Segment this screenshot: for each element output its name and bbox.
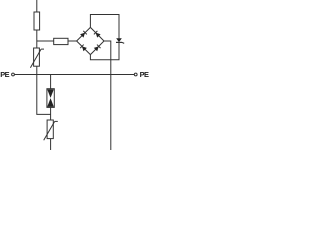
diode D1 (80, 31, 87, 38)
wire varistor to PE rail (36, 66, 38, 74)
diode D4 (94, 45, 101, 52)
wire DC loop bottom (90, 42, 119, 60)
svg-text:PE: PE (0, 70, 9, 79)
svg-text:PE: PE (140, 70, 149, 79)
bridge rectifier diamond (77, 27, 104, 54)
wire GDT top (50, 75, 52, 89)
wire GDT bottom (50, 107, 52, 120)
wire resistor to bridge (68, 40, 77, 42)
gas discharge tube GDT (47, 89, 54, 108)
wire fuse to junction (36, 30, 38, 48)
wire DC loop top (90, 15, 119, 39)
varistor RV2 (44, 120, 58, 140)
terminal circle right (134, 73, 137, 76)
varistor RV1 (30, 48, 44, 68)
wire AC branch right (104, 41, 111, 150)
suppressor diode TVS (116, 38, 124, 43)
resistor R1 (54, 38, 68, 44)
diode D3 (80, 45, 87, 52)
diode D2 (94, 31, 101, 38)
fuse F1 (34, 12, 40, 30)
wire varistor2 to bottom (50, 139, 52, 150)
PE rail wire (14, 74, 134, 76)
wire junction to resistor (37, 40, 54, 42)
wire left drop below PE (37, 75, 51, 115)
terminal circle left (12, 73, 15, 76)
wire top feed (36, 0, 38, 12)
